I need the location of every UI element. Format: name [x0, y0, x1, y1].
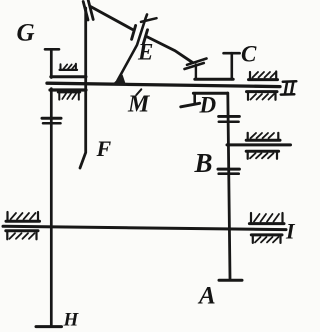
coupling/gear on left shaft [42, 117, 61, 120]
shaft II [47, 83, 280, 86]
svg-text:M: M [127, 92, 151, 118]
M leader tick [136, 89, 141, 95]
diagonal line 1 (right part) [147, 37, 193, 63]
lower-left housing top bar [50, 88, 86, 91]
line 2 from M [118, 15, 148, 81]
label II (roman numeral two) [281, 81, 297, 94]
vertical apex / F line [80, 8, 86, 168]
bevel pair ticks at apex [83, 2, 88, 21]
left vertical shaft G-H : top T-bar [45, 48, 59, 51]
bearing lower on shaft I right [251, 235, 282, 243]
bearing upper on shaft II right [249, 72, 278, 80]
svg-text:E: E [137, 40, 153, 65]
bearing lower on shaft I left [6, 231, 38, 240]
wedge foot at M [112, 75, 127, 86]
gear E ticks [132, 26, 136, 40]
bearing upper on shaft I right [249, 213, 284, 224]
left vertical shaft G-H : upper wall segment [50, 49, 53, 77]
shaft I [3, 226, 286, 229]
D bracket top bar [193, 92, 227, 95]
H end bar [36, 325, 62, 328]
bearing lower on stub shaft [246, 151, 278, 159]
left vertical shaft G-H : main run [50, 89, 53, 327]
diagonal line 1 (left part) [91, 7, 133, 30]
C assembly left wall [195, 65, 197, 80]
svg-text:B: B [194, 148, 213, 178]
bearing lower on shaft II right [247, 92, 278, 100]
D bracket foot stroke [181, 103, 200, 107]
small cross tick at top of line 2 [141, 18, 157, 22]
coupling/gear on shaft A below D [219, 115, 240, 118]
gear B on shaft A [218, 168, 239, 171]
bearing upper on shaft I left [6, 212, 40, 221]
upper-left housing cup bottom [51, 75, 86, 78]
C assembly stem / right wall [231, 53, 234, 79]
svg-text:F: F [96, 136, 112, 161]
svg-text:I: I [285, 219, 296, 244]
svg-text:A: A [197, 283, 216, 310]
C assembly cup bottom [195, 78, 233, 81]
svg-text:C: C [241, 42, 257, 67]
svg-text:H: H [63, 310, 80, 331]
C assembly T-bar [224, 52, 240, 55]
upper-left inner hatch box [60, 64, 77, 70]
D bracket left wall [193, 93, 196, 102]
svg-text:G: G [17, 20, 35, 47]
bearing upper on stub shaft [246, 133, 280, 140]
lower-left inner hatch box [58, 92, 80, 99]
svg-text:D: D [199, 93, 217, 118]
shaft A [228, 93, 230, 279]
gear ticks at end of line 1 [187, 59, 207, 65]
A end bar [219, 279, 242, 282]
stub shaft right of A [227, 143, 291, 146]
